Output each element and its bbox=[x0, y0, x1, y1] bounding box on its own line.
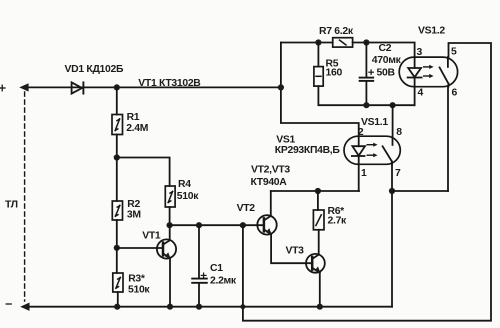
node junction C1 top bbox=[196, 222, 202, 228]
svg-text:3: 3 bbox=[417, 47, 423, 58]
svg-text:R7 6.2к: R7 6.2к bbox=[319, 26, 354, 37]
wire positive feed vertical x=281 bbox=[281, 43, 359, 137]
svg-text:R1: R1 bbox=[127, 112, 140, 123]
node junction loop cross ground bbox=[240, 304, 245, 309]
svg-text:7: 7 bbox=[395, 168, 401, 179]
svg-text:КТ940А: КТ940А bbox=[251, 177, 288, 188]
capacitor C2 bbox=[360, 43, 374, 106]
resistor R6 bbox=[313, 191, 324, 254]
wire top sub rail right bbox=[353, 43, 415, 58]
wire pin8 lead bbox=[392, 105, 394, 136]
svg-text:R2: R2 bbox=[127, 199, 140, 210]
svg-text:2: 2 bbox=[358, 127, 364, 138]
wire to R4 bbox=[117, 158, 170, 187]
wire R1 bottom lead bbox=[116, 135, 118, 158]
resistor R2 bbox=[112, 158, 122, 248]
svg-text:510к: 510к bbox=[128, 285, 150, 296]
svg-text:ТЛ: ТЛ bbox=[5, 200, 18, 211]
svg-text:R3*: R3* bbox=[128, 274, 146, 285]
op-amp VS1.1 optorelay bbox=[344, 136, 400, 164]
capacitor C1 bbox=[192, 225, 207, 307]
resistor R4 bbox=[165, 186, 175, 225]
svg-text:VT3: VT3 bbox=[286, 246, 305, 257]
node C2 plus mark bbox=[369, 70, 374, 74]
wire pin1 lead bbox=[358, 164, 360, 191]
wire VT2 collector rail bbox=[271, 190, 359, 192]
svg-text:VD1 КД102Б: VD1 КД102Б bbox=[65, 64, 124, 75]
svg-text:2.2мк: 2.2мк bbox=[210, 275, 237, 286]
node junction C1 ground bbox=[196, 304, 202, 310]
svg-text:С2: С2 bbox=[379, 43, 392, 54]
node junction R1 top bbox=[114, 84, 120, 90]
node junction VT3 emitter ground bbox=[317, 304, 323, 310]
svg-text:R4: R4 bbox=[178, 179, 191, 190]
wire pin6 lead bbox=[447, 87, 449, 191]
svg-text:4: 4 bbox=[418, 88, 424, 99]
svg-text:VS1: VS1 bbox=[276, 134, 295, 145]
node junction VT2 base bbox=[240, 222, 246, 228]
wire output loop vertical bbox=[243, 43, 491, 321]
svg-text:VT2: VT2 bbox=[237, 203, 256, 214]
transistor VT1 bbox=[157, 225, 176, 307]
svg-text:160: 160 bbox=[326, 68, 343, 79]
svg-text:1: 1 bbox=[361, 168, 367, 179]
svg-text:VT1: VT1 bbox=[142, 230, 161, 241]
svg-text:VS1.2: VS1.2 bbox=[418, 25, 445, 36]
op-amp VS1.2 optorelay bbox=[399, 57, 457, 87]
svg-text:С1: С1 bbox=[210, 263, 223, 274]
svg-text:6: 6 bbox=[452, 88, 458, 99]
wire pin4 lead bbox=[414, 87, 416, 106]
node arrow left top bbox=[19, 83, 28, 91]
svg-text:VT2,VT3: VT2,VT3 bbox=[251, 165, 290, 176]
node junction positive feed bbox=[278, 84, 284, 90]
wire collector node to VT2 base bbox=[170, 224, 264, 226]
node plus terminal bbox=[0, 85, 5, 91]
node junction R6 top bbox=[315, 188, 321, 194]
resistor R7 bbox=[333, 38, 353, 47]
node junction C2 bottom bbox=[363, 102, 369, 108]
svg-text:5: 5 bbox=[451, 47, 457, 58]
node junction R1-R2-R4 bbox=[114, 154, 120, 160]
svg-text:2.7к: 2.7к bbox=[328, 216, 348, 227]
wire R1 top lead bbox=[116, 87, 118, 114]
node junction pin7 bbox=[389, 188, 395, 194]
wire sensor dashed line TL bbox=[24, 92, 26, 301]
wire pin7 lead bbox=[391, 164, 393, 306]
wire VT1 base bbox=[117, 247, 162, 249]
transistor VT2 bbox=[257, 191, 312, 263]
transistor VT3 bbox=[306, 254, 325, 307]
node junction R2-R3-base bbox=[114, 245, 120, 251]
node junction R5 top bbox=[315, 39, 321, 45]
node junction R4-VT1 collector bbox=[167, 222, 173, 228]
wire bottom rail bbox=[28, 306, 392, 308]
wire top sub rail left bbox=[281, 42, 333, 44]
resistor R3 bbox=[113, 248, 123, 307]
svg-text:3M: 3M bbox=[127, 209, 141, 220]
diode VD1 bbox=[72, 82, 84, 93]
svg-text:VT1 КТ3102В: VT1 КТ3102В bbox=[138, 78, 201, 89]
wire main top rail y=87 bbox=[26, 86, 281, 88]
svg-text:50В: 50В bbox=[377, 67, 396, 78]
node junction pin8 tap bbox=[390, 102, 396, 108]
resistor R5 bbox=[314, 43, 415, 106]
node junction VT1 emitter ground bbox=[167, 304, 173, 310]
svg-text:510к: 510к bbox=[177, 191, 199, 202]
svg-text:8: 8 bbox=[396, 127, 402, 138]
node junction R3 ground bbox=[114, 304, 120, 310]
svg-text:2.4M: 2.4M bbox=[126, 123, 148, 134]
node minus terminal bbox=[6, 303, 11, 305]
node arrow left bottom bbox=[20, 303, 29, 311]
node junction C2 top bbox=[363, 39, 369, 45]
resistor R1 bbox=[112, 115, 123, 135]
svg-text:470мк: 470мк bbox=[372, 55, 402, 66]
wire pin7 to pin6 bbox=[392, 190, 448, 192]
svg-text:VS1.1: VS1.1 bbox=[361, 117, 388, 128]
node C1 plus mark bbox=[201, 273, 206, 278]
svg-text:КР293КП4В,Б: КР293КП4В,Б bbox=[275, 145, 341, 156]
